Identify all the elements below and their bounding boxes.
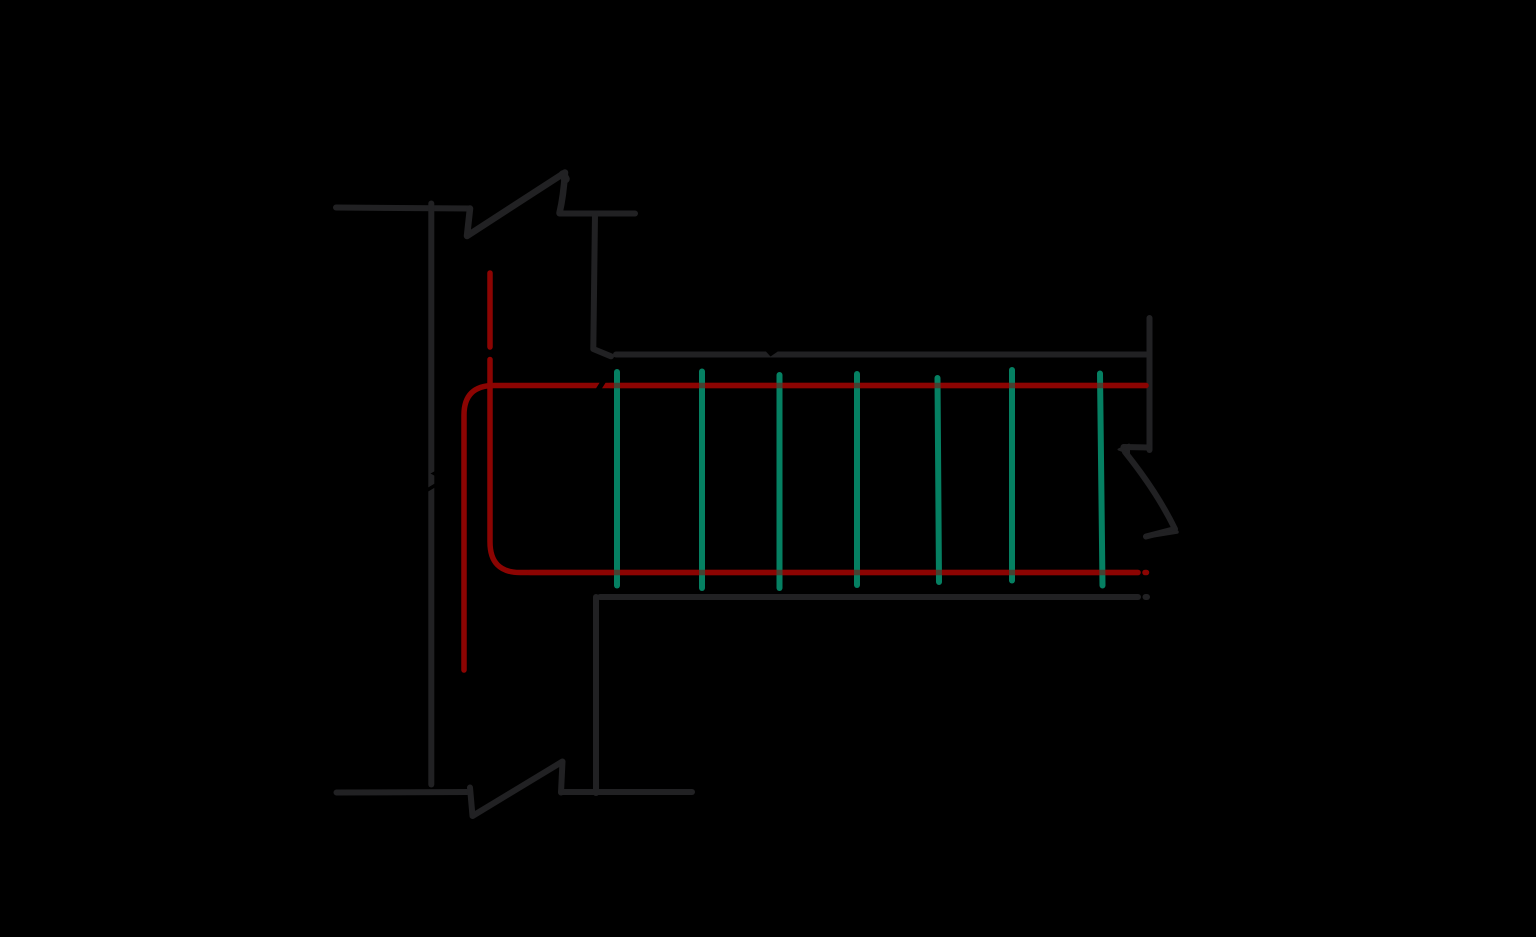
column left edge break notch <box>431 471 437 477</box>
stirrup S4 <box>854 374 860 585</box>
column bottom-right slab line <box>561 789 692 795</box>
stirrup S7 <box>1100 374 1103 586</box>
top rebar overdraw at stirrup crossings <box>610 383 1146 389</box>
top rebar break cut <box>597 381 604 392</box>
column bottom-left slab line <box>337 789 469 796</box>
beam right break symbol <box>1124 447 1176 537</box>
bottom rebar end dash <box>1145 570 1147 576</box>
column rebar bend into bottom rebar <box>490 360 1138 573</box>
column left edge break cut <box>427 485 437 491</box>
beam bottom edge end dash <box>1146 594 1148 600</box>
beam right break horn arrowhead <box>1119 445 1130 454</box>
beam bottom edge <box>600 594 1138 600</box>
beam top edge <box>616 352 1146 358</box>
stirrup S1 <box>614 372 620 586</box>
stirrup S2 <box>699 372 705 589</box>
stirrup S6 <box>1009 370 1015 581</box>
column bottom break symbol <box>470 762 563 817</box>
column top break symbol <box>467 173 565 237</box>
column right edge lower <box>593 597 599 793</box>
column left edge <box>428 204 434 785</box>
column top break peak dab <box>563 175 566 180</box>
column top-right slab line <box>560 211 636 217</box>
stirrup S3 <box>777 375 783 588</box>
beam right end vertical <box>1147 318 1153 450</box>
beam right break foot <box>1146 532 1177 537</box>
column right edge upper <box>593 214 611 356</box>
stirrup S5 <box>938 378 940 582</box>
bottom rebar overdraw at stirrup crossings <box>530 570 1138 576</box>
beam top edge notch <box>766 351 779 357</box>
column top-left slab line <box>336 208 470 209</box>
top rebar bent end <box>464 386 1146 671</box>
column rebar upper <box>487 273 493 347</box>
